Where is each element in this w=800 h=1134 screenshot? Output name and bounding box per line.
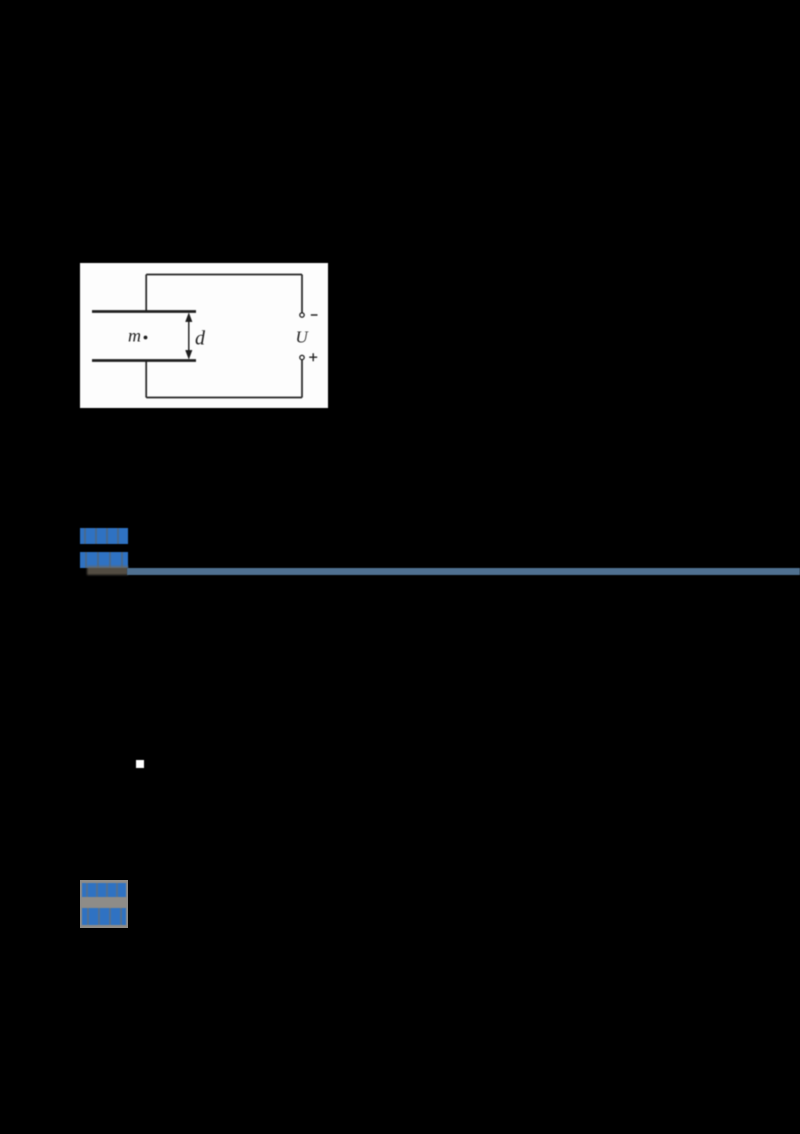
wire bottom [146, 397, 302, 399]
label plus [309, 353, 317, 361]
svg-text:U: U [296, 328, 310, 347]
terminal negative [300, 313, 304, 317]
white bullet square [136, 760, 144, 768]
answer tag block (blue text on black) [80, 528, 128, 544]
svg-text:m: m [128, 326, 141, 346]
label minus [311, 314, 318, 316]
answer line 1 [82, 883, 126, 898]
analysis tag block (blue text on black) [80, 552, 128, 568]
smudge under analysis tag [87, 566, 128, 575]
capacitor lower plate [92, 359, 196, 362]
figure panel (white background of scanned schematic) [80, 263, 328, 408]
section rule [127, 568, 800, 575]
wire right upper [301, 275, 303, 313]
wire left upper [145, 275, 147, 312]
highlighted answer block (gray selection with blue text lines) [80, 880, 128, 928]
capacitor upper plate [92, 310, 196, 313]
dimension arrow d (double headed) [186, 313, 193, 359]
mass dot [144, 336, 148, 340]
answer line 2 [82, 908, 126, 925]
svg-text:d: d [195, 328, 206, 350]
wire top [146, 274, 302, 276]
terminal positive [300, 355, 304, 359]
wire left lower [145, 362, 147, 398]
wire right lower [301, 360, 303, 398]
